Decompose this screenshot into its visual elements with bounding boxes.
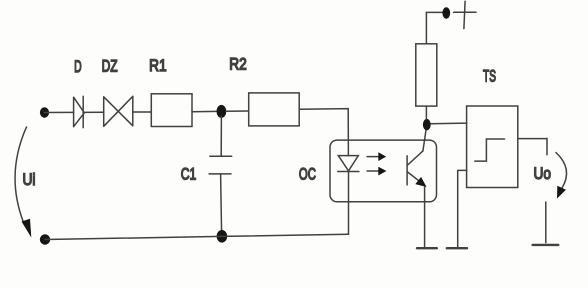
wire input node to diode D [45,111,74,113]
emitter arrowhead [415,177,426,187]
node C (resistor/collector/TS junction) [423,119,431,130]
LED of optocoupler [338,156,359,172]
svg-text:R2: R2 [229,55,247,74]
svg-text:Ui: Ui [23,170,36,189]
resistor R2 [249,93,300,126]
wire TS output [518,138,547,155]
ground (emitter) [417,247,437,249]
Ui measurement arc with arrowhead [15,127,26,221]
ground (output) [533,244,559,246]
svg-text:D: D [74,57,82,76]
phototransistor of optocoupler [407,151,423,185]
svg-text:DZ: DZ [102,57,118,76]
svg-text:Uo: Uo [534,164,552,183]
diode D [74,96,85,127]
node D (C1/bottom-rail junction) [217,230,228,243]
node Ui- (bottom-left input terminal) [40,234,50,244]
wire bottom rail [45,234,349,239]
svg-text:R1: R1 [149,56,167,75]
optocoupler OC box [330,140,437,202]
pull-up resistor (vertical) [416,44,437,106]
ground (TS) [447,247,467,249]
wire output lower segment [545,202,547,243]
wire node B to R2 [226,110,249,112]
hysteresis symbol [475,139,505,161]
wire collector to node C [423,130,426,151]
wire node C to TS input [431,122,467,125]
wire TS bottom-left to ground [458,170,467,247]
node supply [442,7,450,18]
wire emitter down to ground [424,187,426,247]
wire R2 to optocoupler LED anode [299,109,348,156]
resistor R1 [151,94,192,127]
zener diode DZ (bowtie) [104,96,133,126]
supply + symbol [454,1,476,28]
light arrow 2 [367,170,379,172]
wire LED cathode to bottom rail [348,172,350,235]
Schmitt trigger TS box [467,106,518,188]
svg-text:OC: OC [299,164,316,183]
light arrow 1 [367,156,379,158]
wire D to DZ [84,111,103,113]
node B (R1/R2/C1 junction) [217,105,227,118]
node Ui+ (top-left input terminal) [40,107,49,117]
svg-text:C1: C1 [181,165,197,184]
wire resistor bottom to node C [425,106,427,119]
wire C1 to bottom rail [221,174,222,234]
wire resistor top to supply node [426,12,442,43]
Uo measurement arc with arrowhead [556,153,567,189]
capacitor C1 [209,156,232,174]
wire DZ to R1 [133,111,152,113]
wire R1 to node B [192,110,217,112]
svg-text:TS: TS [483,67,496,86]
wire node B down to C1 [220,116,222,156]
